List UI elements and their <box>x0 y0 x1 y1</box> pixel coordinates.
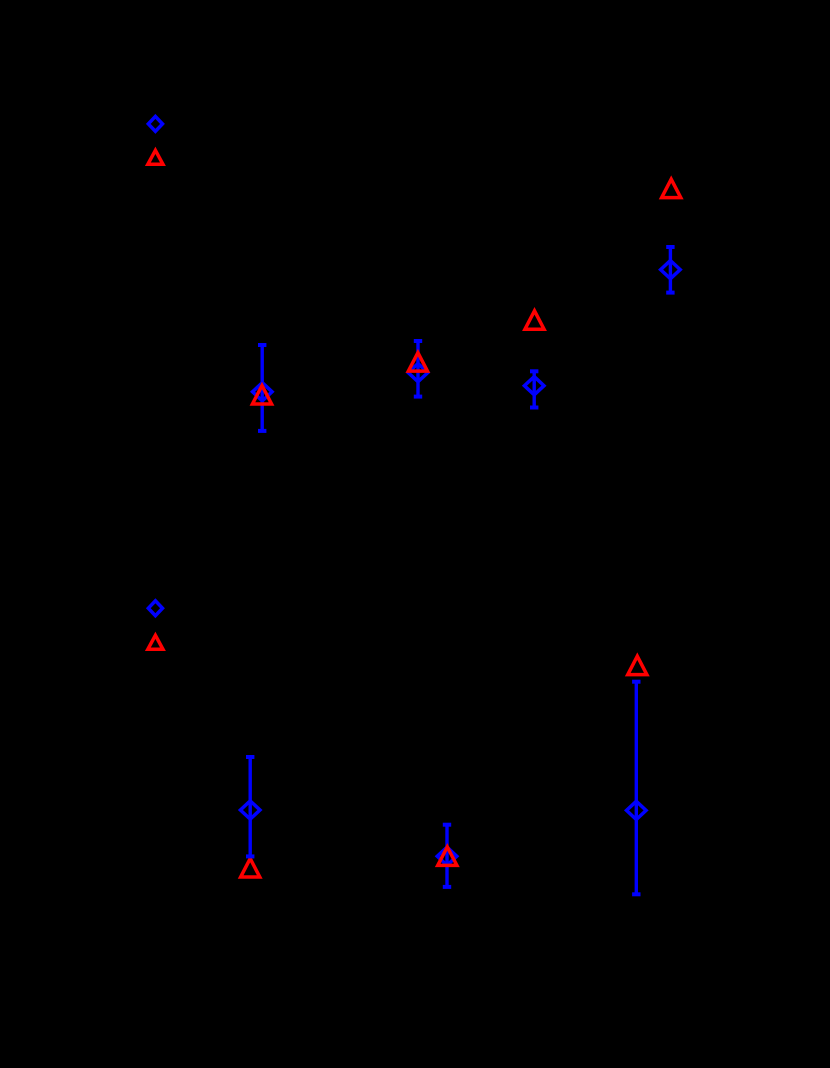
diamond D5 <box>627 801 647 819</box>
legend triangle (top) <box>148 150 163 164</box>
errorbar D2 (x=534.2, 371.3 to 407.5) <box>530 371 538 407</box>
diamond D7 <box>437 847 457 865</box>
legend triangle (bottom) <box>148 635 163 649</box>
triangle T2 <box>525 311 544 329</box>
triangle T1 <box>662 179 681 197</box>
legend diamond (bottom) <box>148 601 162 616</box>
triangle T7 <box>438 847 457 865</box>
legend diamond (top) <box>148 116 162 131</box>
diamond D2 <box>524 377 544 395</box>
errorbar D3 (x=417.5, 341.0 to 396.6) <box>414 341 422 397</box>
diamond D4 <box>253 383 273 401</box>
diamond D3 <box>408 363 428 381</box>
errorbar D1 (x=670.4, 247.0 to 292.6) <box>666 247 674 293</box>
triangle T5 <box>628 656 647 674</box>
errorbar D7 (x=447.0, 824.7 to 886.9) <box>443 825 451 887</box>
triangle T3 <box>408 353 427 371</box>
triangle T6 <box>241 859 260 877</box>
errorbar D6 (x=250.2, 757.0 to 856.4) drawn over triangle T6 apex <box>246 757 254 856</box>
errorbar D4 (x=262.2, 345.0 to 430.9) <box>258 345 266 431</box>
diamond D1 <box>661 260 681 278</box>
errorbar D5 (x=636.3, 681.7 to 894.3) <box>632 682 640 895</box>
triangle T4 <box>252 386 271 404</box>
diamond D6 <box>240 801 260 819</box>
